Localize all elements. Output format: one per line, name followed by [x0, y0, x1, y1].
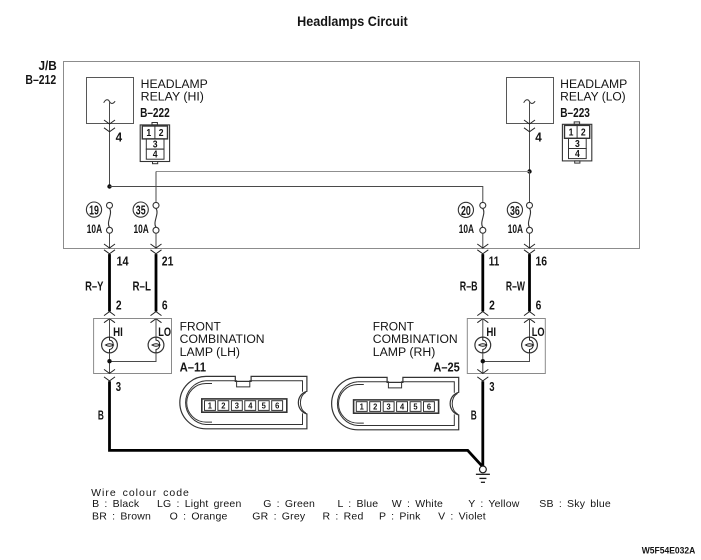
svg-text:16: 16 [536, 255, 548, 269]
svg-text:3: 3 [489, 380, 494, 394]
svg-text:14: 14 [117, 255, 129, 269]
svg-text:RELAY (LO): RELAY (LO) [560, 92, 626, 104]
wire LO bus horizontal [156, 171, 530, 173]
connector chevrons lamp LH pin 2 [104, 312, 115, 316]
svg-text:LO: LO [532, 327, 545, 339]
svg-text:LAMP (RH): LAMP (RH) [373, 347, 436, 359]
wire LO relay to fuse 36 [529, 172, 531, 203]
svg-text:10A: 10A [508, 222, 524, 236]
svg-text:J/B: J/B [39, 59, 57, 73]
svg-text:R–Y: R–Y [85, 279, 104, 293]
svg-text:RELAY (HI): RELAY (HI) [141, 92, 204, 104]
svg-text:4: 4 [116, 131, 123, 145]
wire lamp RH LO bottom [483, 353, 530, 362]
svg-text:FRONT: FRONT [180, 322, 221, 334]
fuse 19 [107, 202, 113, 233]
svg-text:O : Orange: O : Orange [170, 511, 228, 523]
relay HEADLAMP RELAY (LO) [507, 78, 554, 125]
svg-text:W : White: W : White [392, 498, 443, 510]
connector chevrons lamp LH pin 6 [151, 312, 162, 316]
svg-text:Headlamps Circuit: Headlamps Circuit [297, 13, 408, 29]
connector chevrons J/B pin 16 [524, 244, 535, 248]
relay HEADLAMP RELAY (HI) [87, 78, 134, 125]
svg-text:10A: 10A [87, 222, 103, 236]
svg-text:35: 35 [136, 204, 146, 218]
wire lamp RH LO top [529, 319, 531, 338]
fuse 20 [480, 202, 486, 233]
svg-text:10A: 10A [459, 222, 475, 236]
svg-text:B : Black: B : Black [92, 498, 140, 510]
wire fuse 19 to J/B edge [109, 233, 111, 248]
node junction dot HI bus [107, 184, 111, 188]
svg-text:21: 21 [162, 255, 174, 269]
svg-text:A–11: A–11 [180, 360, 206, 374]
wire relay HI output pin 4 [109, 124, 111, 187]
svg-text:B–212: B–212 [25, 73, 56, 87]
svg-text:GR : Grey: GR : Grey [252, 511, 306, 523]
wire B ground LH [110, 381, 483, 466]
svg-text:36: 36 [510, 204, 520, 218]
wire fuse 36 to J/B edge [529, 233, 531, 248]
wire fuse 20 to J/B edge [482, 233, 484, 248]
fuse 36 [527, 202, 533, 233]
wire lamp LH HI top [109, 319, 111, 338]
svg-text:R : Red: R : Red [323, 511, 364, 523]
svg-text:3: 3 [116, 380, 121, 394]
fuse 35 [153, 202, 159, 233]
fuse 36 label circle [507, 202, 522, 217]
connector chevrons J/B pin 21 [151, 244, 162, 248]
ground symbol [476, 466, 490, 482]
svg-text:10A: 10A [134, 222, 150, 236]
wire lamp LH LO bottom [110, 353, 157, 362]
wire R-B thick [481, 254, 484, 311]
node junction dot LO bus [527, 169, 531, 173]
svg-text:B: B [471, 409, 477, 423]
svg-text:2: 2 [116, 299, 122, 313]
svg-text:LO: LO [158, 327, 171, 339]
connector chevrons lamp RH pin 3 [477, 369, 488, 373]
wire colour code row 2 [92, 511, 486, 523]
svg-text:HEADLAMP: HEADLAMP [560, 79, 627, 91]
svg-text:LAMP (LH): LAMP (LH) [180, 347, 240, 359]
svg-text:B: B [98, 409, 104, 423]
svg-text:A–25: A–25 [433, 360, 459, 374]
connector B-223 pinout [562, 122, 591, 163]
bulb LO (LH) [148, 337, 164, 353]
connector chevrons lamp RH pin 6 [524, 312, 535, 316]
wire HI bus horizontal [110, 187, 483, 203]
svg-text:V : Violet: V : Violet [438, 511, 486, 523]
svg-text:BR : Brown: BR : Brown [92, 511, 151, 523]
wire R-Y thick [108, 254, 111, 311]
svg-text:R–W: R–W [506, 279, 525, 293]
svg-text:B–223: B–223 [560, 106, 590, 120]
fuse 35 label circle [133, 202, 148, 217]
svg-text:L : Blue: L : Blue [338, 498, 379, 510]
svg-text:LG : Light green: LG : Light green [157, 498, 242, 510]
wire fuse 35 to J/B edge [155, 233, 157, 248]
connector chevrons relay HI pin 4 [104, 120, 115, 124]
bulb LO (RH) [522, 337, 538, 353]
node junction dot lamp RH [481, 359, 485, 363]
connector chevrons J/B pin 11 [477, 244, 488, 248]
connector chevrons relay LO pin 4 [524, 120, 535, 124]
svg-text:HEADLAMP: HEADLAMP [141, 79, 208, 91]
svg-text:G : Green: G : Green [263, 498, 315, 510]
junction block J/B B-212 box [64, 62, 640, 249]
connector chevrons lamp LH pin 3 [104, 369, 115, 373]
svg-text:4: 4 [535, 131, 542, 145]
wire lamp RH HI bottom [482, 353, 484, 374]
bulb HI (LH) [102, 337, 118, 353]
svg-text:SB : Sky blue: SB : Sky blue [539, 498, 611, 510]
lamp box FRONT COMBINATION LAMP (LH) [94, 319, 172, 374]
wire B ground RH [481, 381, 484, 466]
svg-text:6: 6 [536, 299, 542, 313]
svg-text:19: 19 [89, 204, 99, 218]
connector chevrons lamp RH pin 2 [477, 312, 488, 316]
svg-text:Y : Yellow: Y : Yellow [468, 498, 520, 510]
svg-text:FRONT: FRONT [373, 322, 414, 334]
svg-text:HI: HI [486, 327, 496, 339]
svg-text:20: 20 [461, 204, 471, 218]
wire lamp LH LO top [155, 319, 157, 338]
fuse 19 label circle [86, 202, 101, 217]
svg-text:COMBINATION: COMBINATION [373, 334, 458, 346]
svg-text:R–B: R–B [460, 279, 478, 293]
wire R-W thick [528, 254, 531, 311]
svg-text:HI: HI [113, 327, 123, 339]
wire R-L thick [155, 254, 158, 311]
svg-text:2: 2 [489, 299, 495, 313]
wire lamp RH HI top [482, 319, 484, 338]
connector B-222 pinout [140, 123, 169, 164]
svg-text:W5F54E032A: W5F54E032A [642, 546, 696, 557]
svg-text:R–L: R–L [133, 279, 152, 293]
connector A-25 pinout [332, 377, 459, 429]
lamp box FRONT COMBINATION LAMP (RH) [467, 319, 545, 374]
svg-text:B–222: B–222 [140, 106, 170, 120]
svg-text:COMBINATION: COMBINATION [180, 334, 265, 346]
fuse 20 label circle [458, 202, 473, 217]
svg-text:Wire colour code: Wire colour code [91, 487, 190, 499]
wire lamp LH HI bottom [109, 353, 111, 374]
wire colour code row 1 [92, 498, 611, 510]
wire relay LO output pin 4 [529, 124, 531, 172]
bulb HI (RH) [475, 337, 491, 353]
svg-text:P : Pink: P : Pink [379, 511, 421, 523]
node junction dot lamp LH [107, 359, 111, 363]
svg-text:11: 11 [489, 255, 500, 269]
connector chevrons J/B pin 14 [104, 244, 115, 248]
svg-text:6: 6 [162, 299, 168, 313]
connector A-11 pinout [180, 376, 307, 428]
